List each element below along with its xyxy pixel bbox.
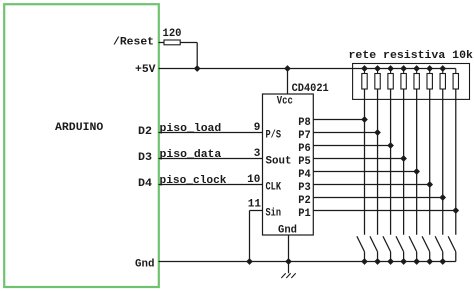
- wire column 1 from resistor down to switch: [364, 89, 366, 235]
- junction node P3: [427, 182, 433, 188]
- Arduino module outline box: [4, 4, 159, 287]
- wire P4 from CD4021 to column 5: [313, 171, 416, 173]
- switch S4 (open blade): [396, 236, 404, 251]
- switch S6 (open blade): [422, 236, 430, 251]
- svg-text:D4: D4: [138, 178, 152, 190]
- switch S7 (open blade): [435, 236, 443, 251]
- svg-text:rete resistiva 10k: rete resistiva 10k: [349, 50, 474, 62]
- wire Sin pin to ground (left then down): [250, 210, 263, 212]
- svg-text:P4: P4: [298, 169, 311, 181]
- svg-text:CD4021: CD4021: [292, 83, 329, 95]
- svg-text:P1: P1: [298, 208, 311, 220]
- svg-text:/Reset: /Reset: [113, 36, 154, 48]
- junction node switch S5 to Gnd rail: [414, 259, 420, 265]
- junction node +5V bus to RN1: [362, 66, 368, 72]
- ground symbol (earth): [288, 262, 290, 274]
- wire /Reset stub from Arduino to resistor: [159, 42, 165, 44]
- svg-text:ARDUINO: ARDUINO: [55, 122, 104, 134]
- resistor RN6 10k: [429, 69, 431, 74]
- switch S5 (open blade): [409, 236, 417, 251]
- junction node +5V bus to RN5: [414, 66, 420, 72]
- resistor RN3 10k: [390, 69, 392, 74]
- svg-text:120: 120: [163, 28, 182, 40]
- resistor network outline box: [353, 64, 470, 100]
- wire column 8 from resistor down to switch: [455, 89, 457, 235]
- junction node switch S6 to Gnd rail: [427, 259, 433, 265]
- junction node switch S1 to Gnd rail: [362, 259, 368, 265]
- junction node P6: [388, 143, 394, 149]
- junction node +5V bus to RN6: [427, 66, 433, 72]
- resistor RN2 10k: [377, 69, 379, 74]
- switch S2 (open blade): [370, 236, 378, 251]
- svg-text:P8: P8: [298, 117, 311, 129]
- junction node +5V bus to RN3: [388, 66, 394, 72]
- svg-text:piso_clock: piso_clock: [160, 175, 227, 187]
- junction node +5V bus to RN2: [375, 66, 381, 72]
- wire column 5 from resistor down to switch: [416, 89, 418, 235]
- svg-text:Sout: Sout: [266, 156, 292, 168]
- svg-text:9: 9: [254, 122, 261, 134]
- wire Gnd rail from Arduino to switches: [159, 261, 456, 263]
- svg-text:+5V: +5V: [135, 64, 156, 76]
- resistor RN4 10k: [403, 69, 405, 74]
- wire column 2 from resistor down to switch: [377, 89, 379, 235]
- wire P5 from CD4021 to column 4: [313, 158, 403, 160]
- wire net piso_load from Arduino to CD4021: [159, 132, 263, 134]
- svg-text:Sin: Sin: [266, 208, 282, 220]
- wire P2 from CD4021 to column 7: [313, 197, 442, 199]
- wire Vcc drop into CD4021: [287, 69, 289, 95]
- wire column 6 from resistor down to switch: [429, 89, 431, 235]
- wire +5V rail from Arduino to resistor network: [159, 68, 456, 70]
- resistor RN5 10k: [416, 69, 418, 74]
- wire from resistor to +5V net (right then down): [180, 42, 197, 44]
- junction node +5V bus to RN4: [401, 66, 407, 72]
- switch S3 (open blade): [383, 236, 391, 251]
- svg-text:piso_load: piso_load: [160, 123, 222, 135]
- junction node switch S3 to Gnd rail: [388, 259, 394, 265]
- junction node switch S2 to Gnd rail: [375, 259, 381, 265]
- wire net piso_clock from Arduino to CD4021: [159, 184, 263, 186]
- svg-text:3: 3: [254, 148, 261, 160]
- junction node +5V bus to RN7: [440, 66, 446, 72]
- wire net piso_data from Arduino to CD4021: [159, 158, 263, 160]
- junction node: CD4021 Gnd to rail: [286, 259, 292, 265]
- wire P3 from CD4021 to column 6: [313, 184, 429, 186]
- junction node: Sin to Gnd rail: [247, 259, 253, 265]
- svg-text:P5: P5: [298, 156, 311, 168]
- svg-text:piso_data: piso_data: [160, 149, 222, 161]
- wire column 3 from resistor down to switch: [390, 89, 392, 235]
- wire CD4021 Gnd pin drop: [288, 235, 290, 262]
- svg-text:11: 11: [248, 199, 262, 211]
- junction node P7: [375, 130, 381, 136]
- wire column 7 from resistor down to switch: [442, 89, 444, 235]
- svg-text:D3: D3: [138, 152, 152, 164]
- resistor RN7 10k: [442, 69, 444, 74]
- wire P8 from CD4021 to column 1: [313, 119, 364, 121]
- svg-text:P3: P3: [298, 182, 311, 194]
- svg-text:D2: D2: [138, 126, 152, 138]
- wire column 4 from resistor down to switch: [403, 89, 405, 235]
- junction node P4: [414, 169, 420, 175]
- junction node switch S4 to Gnd rail: [401, 259, 407, 265]
- resistor RN1 10k: [364, 69, 366, 74]
- resistor 120 (series on /Reset): [164, 40, 180, 45]
- svg-text:P7: P7: [298, 130, 311, 142]
- wire P6 from CD4021 to column 3: [313, 145, 390, 147]
- resistor RN8 10k: [455, 69, 457, 74]
- switch S8 (open blade): [448, 236, 456, 251]
- svg-text:Gnd: Gnd: [278, 225, 297, 237]
- svg-text:Gnd: Gnd: [135, 258, 155, 270]
- svg-text:Vcc: Vcc: [277, 95, 293, 107]
- junction node P2: [440, 195, 446, 201]
- junction node: +5V to CD4021 Vcc: [285, 66, 291, 72]
- svg-text:P2: P2: [298, 195, 311, 207]
- svg-text:10: 10: [247, 174, 260, 186]
- junction node P8: [362, 117, 368, 123]
- wire P1 from CD4021 to column 8: [313, 210, 455, 212]
- svg-text:P/S: P/S: [266, 130, 282, 142]
- junction node: resistor to +5V rail: [194, 66, 200, 72]
- junction node P5: [401, 156, 407, 162]
- wire P7 from CD4021 to column 2: [313, 132, 377, 134]
- svg-text:P6: P6: [298, 143, 311, 155]
- op IC U1 CD4021 body: [263, 94, 314, 235]
- junction node switch S7 to Gnd rail: [440, 259, 446, 265]
- switch S1 (open blade): [357, 236, 365, 251]
- svg-text:CLK: CLK: [266, 182, 282, 194]
- junction node P1: [453, 208, 459, 214]
